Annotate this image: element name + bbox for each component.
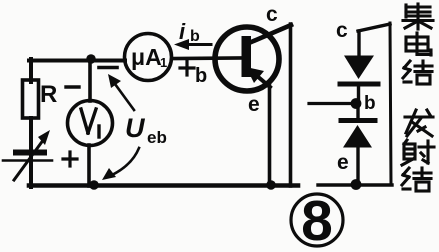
emitter arrowhead (PNP, points to base) [246,67,264,83]
battery plate thick (adjustable source) [16,150,44,156]
voltmeter V1 [68,101,113,146]
svg-text:1: 1 [160,55,167,70]
svg-text:eb: eb [147,128,167,147]
node b dot [351,98,362,109]
battery plate thin [3,159,52,162]
wire: collector vertical [289,24,293,186]
minus sign (voltmeter top) [66,85,79,88]
figure number 8 circle [291,194,343,246]
svg-text:b: b [190,28,200,45]
diode D1 collector junction (triangle) [344,56,374,80]
svg-text:b: b [195,65,207,87]
svg-text:μA: μA [131,44,162,70]
char SHE (emitter 2) [402,140,434,165]
diode D1 cathode bar [340,82,378,87]
transistor base bar [242,36,252,77]
diode D2 cathode bar [341,118,375,123]
wire: c down to diode D1 [357,31,360,57]
node e dot [351,179,362,190]
svg-text:c: c [336,19,348,42]
char DIAN (electric) [406,33,431,55]
wire: node down to voltmeter [88,60,92,101]
char JI (collector) [403,4,433,29]
wire: top horizontal (left loop) [29,59,125,63]
Ueb arrow upper [115,84,134,110]
svg-text:R: R [40,81,57,108]
ammeter uA1 [125,34,172,81]
wire: left vertical lower [29,161,33,187]
char JIE (junction) top [403,61,432,84]
arrow ib (points left) [182,43,211,46]
plus sign (voltmeter bottom) [63,152,77,166]
wire: D1 to node b [357,84,360,103]
minus sign (base wire) [99,66,117,70]
svg-text:U: U [125,113,146,143]
char JIE (junction) bottom [402,168,431,191]
node: bottom junction dot [89,180,99,190]
diode D2 emitter junction (triangle) [343,125,372,148]
battery adjust arrow [14,139,44,180]
transistor emitter lead [250,70,270,87]
plus sign (base) [180,61,194,75]
wire: bottom horizontal (left loop) [29,183,298,188]
transistor Q1 (PNP) [215,27,279,91]
svg-text:b: b [364,93,376,114]
wire: ammeter to transistor base [172,56,242,60]
wire: D2 down to bottom [356,147,359,185]
svg-text:8: 8 [301,189,333,252]
transistor collector lead [249,25,291,43]
wire: left vertical middle [29,118,33,162]
wire: bottom of diode model [318,183,392,186]
wire: b to D2 [356,104,359,121]
char FA (emitter 1) [405,110,433,136]
wire: c to top-right corner [358,24,390,31]
svg-text:i: i [179,19,186,44]
svg-text:e: e [248,93,260,116]
svg-text:c: c [266,3,278,26]
wire: emitter vertical [268,86,272,186]
label V1 [81,109,99,137]
wire: voltmeter down to bottom wire [87,145,91,186]
Ueb arrow lower [112,148,139,175]
svg-text:e: e [337,151,349,174]
wire: left vertical upper [29,59,33,82]
node: top junction dot [86,54,96,64]
wire: base lead going left [309,102,352,105]
wire: right side vertical [390,23,391,185]
resistor R [23,80,39,118]
node: emitter bottom dot [266,180,276,190]
